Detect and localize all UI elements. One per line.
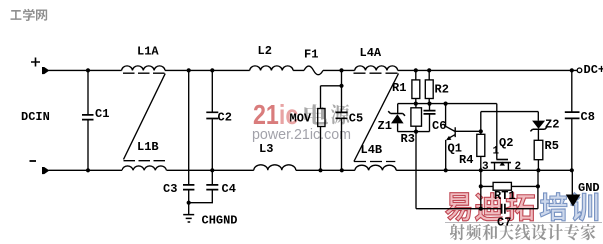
wire MOV/C5 tee <box>321 70 342 170</box>
label C1 <box>95 107 109 121</box>
label CHGND <box>202 214 238 228</box>
node junction dots C1 <box>86 68 90 172</box>
node + input terminal label <box>31 58 40 67</box>
watermark 培训 <box>540 193 598 221</box>
label C6 <box>432 119 446 133</box>
node junction dot Q1 emitter rail <box>444 168 448 172</box>
node junction dot base tee <box>479 129 483 133</box>
ground CHGND symbol <box>183 203 194 222</box>
wire Z1 R3 C6 bottom join <box>398 131 430 133</box>
capacitor C6 <box>424 104 436 132</box>
watermark 电源 <box>304 104 349 124</box>
svg-text:Q2: Q2 <box>499 136 513 150</box>
wire C7 bottom line <box>416 186 538 208</box>
label L1B <box>137 140 159 154</box>
inductor L2 <box>250 66 293 71</box>
wire R3 junction down to C7 line (crosses bottom rail) <box>415 132 417 209</box>
svg-text:C2: C2 <box>218 111 232 125</box>
svg-text:3: 3 <box>482 161 489 173</box>
label Q2 <box>499 136 513 150</box>
thermistor RT1 box <box>493 182 511 190</box>
choke core L1 dashed bars and diagonal <box>123 73 165 161</box>
resistor R1 <box>412 70 420 103</box>
node junction dots R1 R2 top <box>414 68 432 72</box>
svg-text:1: 1 <box>493 146 500 158</box>
ground GND output <box>566 170 581 206</box>
capacitor C3 (top rail to chassis gnd, crosses bottom rail) <box>183 70 194 202</box>
svg-text:F1: F1 <box>304 48 318 62</box>
wire RT1 row verticals <box>481 170 538 186</box>
label pin 3 <box>482 161 489 173</box>
label DC+ <box>584 63 603 77</box>
label C8 <box>581 110 595 124</box>
watermark 21ic logo <box>253 99 298 131</box>
node junction dots on gate bus <box>414 102 448 106</box>
node junction dot C5 bottom <box>340 168 344 172</box>
watermark power.21ic.com <box>252 126 351 143</box>
svg-text:L2: L2 <box>258 44 272 58</box>
inductor L1A <box>122 66 165 71</box>
svg-text:C7: C7 <box>497 216 511 230</box>
node junction dot R4 bottom rail <box>479 168 483 172</box>
mosfet Q2 <box>491 104 511 171</box>
node junction dot C3 top <box>187 68 191 72</box>
svg-text:C5: C5 <box>349 112 363 126</box>
fuse F1 <box>304 66 323 75</box>
inductor L4B <box>355 165 396 170</box>
watermark 射频和天线设计专家 <box>450 224 596 240</box>
svg-text:R3: R3 <box>401 132 415 146</box>
svg-text:L3: L3 <box>259 142 273 156</box>
zener Z2 <box>530 121 546 141</box>
svg-text:L1B: L1B <box>137 140 159 154</box>
wire gate bus y104 <box>398 103 497 105</box>
svg-text:L4B: L4B <box>361 143 383 157</box>
inductor L1B <box>122 166 166 170</box>
node junction dot chassis <box>187 201 191 205</box>
label L2 <box>258 44 272 58</box>
varistor MOV box <box>318 109 325 127</box>
node DCIN label <box>21 110 50 124</box>
label RT1 <box>494 189 516 203</box>
wire chassis join <box>189 202 213 204</box>
label R3 <box>401 132 415 146</box>
label R2 <box>435 83 449 97</box>
wire bottom rail <box>49 169 573 171</box>
label pin 2 <box>515 161 522 173</box>
svg-text:C3: C3 <box>163 182 177 196</box>
inductor L3 <box>254 165 296 170</box>
label C2 <box>218 111 232 125</box>
watermark rule <box>445 222 602 224</box>
svg-text:CHGND: CHGND <box>202 214 238 228</box>
svg-text:C4: C4 <box>222 182 236 196</box>
svg-text:MOV: MOV <box>290 112 312 126</box>
svg-text:GND: GND <box>578 181 600 195</box>
label R4 <box>459 153 473 167</box>
node junction dots RT1 row <box>479 184 540 188</box>
label R1 <box>392 81 406 95</box>
label Z1 <box>378 119 392 133</box>
node junction dot C7 line <box>479 207 483 211</box>
svg-text:R5: R5 <box>545 139 559 153</box>
svg-text:C6: C6 <box>432 119 446 133</box>
label C4 <box>222 182 236 196</box>
transistor Q1 <box>446 104 481 171</box>
node junction dots C2 <box>210 68 214 172</box>
svg-text:R4: R4 <box>459 153 473 167</box>
capacitor C2 <box>206 70 218 170</box>
svg-text:RT1: RT1 <box>494 189 516 203</box>
node junction dots C8 <box>570 68 574 172</box>
label pin 1 <box>493 146 500 158</box>
node - arrow terminal <box>42 167 49 174</box>
svg-text:C1: C1 <box>95 107 109 121</box>
svg-text:L1A: L1A <box>137 45 159 59</box>
label L4B <box>361 143 383 157</box>
label L1A <box>137 45 159 59</box>
choke core L4 dashed bars and diagonal <box>354 73 399 161</box>
label Q1 <box>448 142 462 156</box>
capacitor C1 <box>82 70 94 170</box>
resistor R5 <box>534 140 543 170</box>
resistor R3 <box>411 104 422 132</box>
svg-text:2: 2 <box>515 161 522 173</box>
svg-text:C8: C8 <box>581 110 595 124</box>
svg-text:R1: R1 <box>392 81 406 95</box>
zener Z1 <box>388 104 405 132</box>
watermark 易迪拓 <box>445 193 534 221</box>
label R5 <box>545 139 559 153</box>
svg-text:Z1: Z1 <box>378 119 392 133</box>
label MOV <box>290 112 312 126</box>
terminal DC+ circle <box>577 68 582 73</box>
svg-text:Z2: Z2 <box>545 118 559 132</box>
resistor R4 <box>477 131 485 170</box>
node junction dots MOV branch <box>318 68 343 172</box>
svg-text:DC+: DC+ <box>584 63 603 77</box>
resistor R2 <box>425 70 433 103</box>
node junction dot R5 rail <box>536 168 540 172</box>
label C3 <box>163 182 177 196</box>
svg-text:L4A: L4A <box>360 46 382 60</box>
label GND <box>578 181 600 195</box>
svg-text:DCIN: DCIN <box>21 110 50 124</box>
capacitor C7 <box>502 204 505 214</box>
label L3 <box>259 142 273 156</box>
watermark 工学网 <box>11 9 48 21</box>
inductor L4A <box>355 66 398 71</box>
label C7 <box>497 216 511 230</box>
svg-text:R2: R2 <box>435 83 449 97</box>
label C5 <box>349 112 363 126</box>
capacitor C5 <box>336 86 348 171</box>
wire R4 branch and line to Z2 <box>481 112 539 132</box>
capacitor C8 <box>565 70 580 170</box>
node junction dot R3 bottom <box>414 130 418 134</box>
capacitor C4 <box>206 170 218 202</box>
node - input terminal label <box>30 160 37 162</box>
wire top rail <box>49 69 578 71</box>
label Z2 <box>545 118 559 132</box>
node + arrow terminal <box>42 67 49 74</box>
label L4A <box>360 46 382 60</box>
label F1 <box>304 48 318 62</box>
